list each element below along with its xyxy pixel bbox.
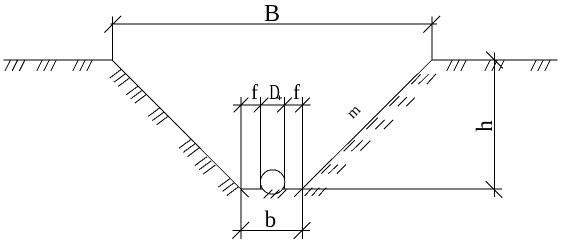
ground hatch right group 3 — [531, 61, 550, 71]
bottom hatch group under pipe — [264, 190, 286, 198]
outer-right vertical (also b extension) — [301, 98, 303, 239]
left slope hatch group 3 — [149, 108, 169, 125]
right slope line with overshoot past bottom corner — [295, 60, 432, 197]
B tick right — [424, 16, 440, 32]
left slope hatch group 2 — [127, 86, 147, 103]
left slope hatch group 6 — [219, 179, 239, 196]
left slope hatch group 1 — [110, 69, 130, 86]
f D f tick 4 — [295, 98, 309, 112]
right slope dash cluster 5 — [412, 74, 436, 84]
right slope dash cluster 4 — [390, 97, 415, 106]
B dimension extension line left — [112, 17, 114, 60]
ground hatch left group 2 — [37, 61, 56, 71]
trench bottom line and extension to h dimension — [241, 188, 502, 190]
svg-text:f: f — [293, 80, 300, 104]
svg-text:D: D — [269, 80, 280, 104]
D subscript mark — [277, 96, 281, 100]
B dimension extension line right — [431, 17, 433, 60]
svg-text:b: b — [265, 207, 277, 232]
inner-left pipe tangent vertical — [260, 98, 262, 190]
svg-text:m: m — [344, 102, 365, 123]
f D f tick 2 — [254, 98, 268, 112]
ground hatch right group 1 — [447, 61, 466, 71]
left slope hatch group 5 — [195, 157, 215, 174]
ground hatch left group 1 — [5, 61, 24, 71]
ground hatch left group 3 — [73, 61, 92, 71]
h tick bottom — [486, 182, 502, 198]
right slope dash cluster 2 — [344, 140, 370, 151]
svg-text:f: f — [251, 80, 258, 104]
right slope dash cluster 3 — [367, 118, 393, 129]
inner-right pipe tangent vertical — [284, 98, 286, 190]
B dimension line — [111, 23, 437, 25]
left slope hatch group 4 — [180, 140, 200, 157]
f D f tick 3 — [278, 98, 292, 112]
ground line left — [4, 59, 112, 61]
ground line right — [432, 59, 557, 61]
h dimension line vertical — [493, 53, 495, 197]
f D f tick 1 — [234, 98, 248, 112]
left slope line — [112, 60, 249, 197]
f D f dimension line — [234, 104, 311, 106]
bottom hatch group right of corner — [305, 188, 326, 196]
b tick left — [233, 222, 249, 238]
b dimension line — [233, 229, 310, 231]
h tick top — [486, 52, 502, 68]
right slope dash cluster 1 — [322, 165, 346, 173]
pipe circle D — [260, 170, 284, 194]
b tick right — [294, 222, 310, 238]
B tick left — [105, 16, 121, 32]
svg-text:h: h — [472, 120, 497, 132]
f D f extension verticals: outer-left (also b extension) — [240, 98, 242, 239]
svg-text:B: B — [264, 1, 280, 27]
ground hatch right group 2 — [485, 61, 504, 71]
